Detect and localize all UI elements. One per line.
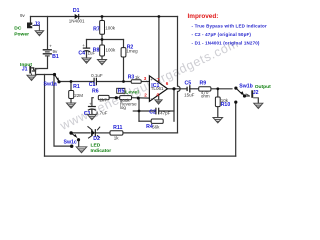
svg-text:15uF: 15uF (184, 93, 195, 98)
connector J3 DC power (27, 23, 39, 31)
resistor R1 (69, 91, 74, 99)
battery B1 (43, 50, 52, 56)
node Sw1b bypass throw (234, 101, 237, 104)
connector J2 output jack (246, 90, 259, 98)
wire feedback right vertical (173, 89, 175, 121)
svg-text:R3: R3 (128, 75, 135, 81)
node R2 junction (122, 80, 125, 83)
svg-text:B1: B1 (52, 54, 59, 60)
svg-text:7: 7 (157, 77, 160, 82)
wire R7 top stub (101, 17, 103, 21)
wire R10 top stub (217, 89, 219, 97)
node Sw1c common (69, 131, 72, 134)
svg-text:log: log (120, 105, 127, 110)
svg-text:1k: 1k (135, 75, 141, 80)
op-amp IC1 (149, 76, 167, 102)
svg-text:R11: R11 (113, 125, 122, 131)
wire Sw1a grounded throw vertical (54, 76, 71, 147)
ground under R10 (213, 118, 223, 123)
svg-text:+: + (150, 77, 153, 82)
node R7 top junction (101, 15, 104, 18)
svg-text:TL061: TL061 (151, 86, 164, 91)
svg-text:Improved:: Improved: (188, 13, 219, 20)
svg-text:1meg: 1meg (126, 49, 138, 54)
wire J1 tip to Sw1a common (33, 71, 55, 75)
wire R8 ground stub (101, 56, 103, 60)
wire LED to Sw1c (71, 132, 90, 134)
resistor R4 (151, 119, 163, 123)
wire R7 bottom stub (101, 34, 103, 39)
capacitor C4 (83, 48, 90, 52)
node pot left junction (115, 96, 118, 99)
wire bypass vertical right (235, 102, 237, 156)
resistor R8 (100, 45, 105, 56)
svg-text:9v: 9v (20, 13, 26, 18)
node Sw1a common (53, 73, 56, 76)
watermark (57, 36, 241, 133)
wire R1 bottom stub (70, 99, 72, 104)
switch Sw1b (236, 88, 244, 96)
node pin7 supply junction (158, 15, 161, 18)
switch Sw1a (55, 75, 60, 83)
svg-text:R6: R6 (92, 88, 99, 94)
capacitor C1 (94, 78, 96, 86)
node C2 row junction (138, 110, 141, 113)
svg-text:Sw1c: Sw1c (64, 139, 77, 145)
wire pot wiper stub (133, 110, 139, 112)
wire C2 row left (139, 110, 155, 112)
diode D1 (75, 14, 79, 19)
svg-text:3: 3 (144, 76, 147, 81)
wire R9 to Sw1b (211, 88, 232, 90)
node output junction (172, 87, 175, 90)
node R1 junction (70, 80, 73, 83)
node pin2 junction (137, 97, 140, 100)
svg-text:2: 2 (144, 92, 147, 97)
svg-text:- C2 - 47pF (original 50pF): - C2 - 47pF (original 50pF) (192, 32, 252, 37)
wire battery top drop (47, 17, 49, 50)
svg-text:DC: DC (14, 25, 22, 31)
svg-text:R8: R8 (93, 48, 100, 54)
wire C1 to R3 (97, 81, 132, 83)
svg-text:Sw1a: Sw1a (44, 82, 57, 88)
svg-text:R9: R9 (200, 81, 207, 87)
wire R8 top stub (101, 40, 103, 46)
svg-text:1k: 1k (114, 136, 120, 141)
svg-text:R10: R10 (221, 102, 231, 108)
wire C4 ground stub (86, 51, 88, 58)
wire output row (168, 88, 187, 90)
wire J2 ground stub (257, 98, 259, 103)
svg-text:Indicator: Indicator (91, 148, 112, 154)
resistor R10 (215, 97, 220, 107)
wire Sw1c throw ground stub (78, 140, 80, 146)
ground under J2 (254, 103, 263, 108)
potentiometer R5 (120, 96, 132, 100)
ground under C4 (82, 58, 91, 63)
connector J1 input jack (29, 66, 38, 74)
wire pot right to pin2 (132, 97, 150, 99)
capacitor C2 (156, 108, 159, 115)
node Sw1c grounded throw (77, 138, 80, 141)
capacitor C3 (88, 107, 96, 111)
wire battery bottom to input jack (36, 57, 48, 71)
svg-text:+: + (49, 44, 52, 49)
svg-text:D2: D2 (93, 136, 100, 142)
ground under R1 (67, 103, 76, 108)
ground under op-amp pin4 (155, 100, 162, 104)
resistor R2 (121, 48, 126, 57)
svg-text:6: 6 (166, 81, 169, 86)
ground under C3 (87, 115, 96, 120)
wire R3 to op-amp pin3 (141, 81, 149, 83)
svg-text:R7: R7 (93, 26, 100, 32)
wire R4 row (139, 120, 151, 122)
wire Sw1b throw to J2 (246, 95, 250, 97)
svg-text:- True Bypass with LED indicat: - True Bypass with LED indicator (192, 24, 267, 29)
svg-text:C1: C1 (89, 82, 96, 88)
resistor R9 (199, 87, 211, 91)
resistor R11 (110, 131, 123, 135)
wire C4 stub (86, 40, 88, 48)
node Vbias junction (101, 38, 104, 41)
wire R2 vertical (123, 40, 125, 48)
svg-text:Sw1b: Sw1b (239, 84, 253, 90)
node Sw1c open throw (70, 145, 73, 148)
wire R6 right to pot (109, 97, 120, 99)
wire feedback left vertical (138, 98, 140, 121)
svg-text:J1: J1 (22, 66, 28, 72)
ground under J1 (27, 74, 36, 81)
svg-text:LED: LED (91, 143, 101, 149)
svg-text:J2: J2 (253, 90, 259, 96)
svg-text:J3: J3 (34, 21, 40, 27)
svg-text:4: 4 (156, 92, 159, 97)
svg-text:1N4001: 1N4001 (69, 19, 85, 24)
svg-text:100k: 100k (106, 47, 117, 52)
svg-text:C2: C2 (149, 110, 156, 116)
node R10 junction (216, 87, 219, 90)
wire LED supply to R11 (123, 132, 178, 134)
node Sw1a throw (57, 80, 60, 83)
svg-text:C4: C4 (78, 50, 85, 56)
wire op-amp pin4 ground stub (158, 95, 160, 100)
svg-text:Level: Level (125, 89, 139, 95)
resistor R6 (98, 95, 109, 99)
wire C3 ground stub (91, 110, 93, 115)
wire op-amp pin7 (158, 17, 160, 83)
wire LED supply drop with hop (178, 17, 181, 133)
resistor R7 (100, 21, 105, 35)
svg-text:+: + (82, 43, 85, 48)
wire top +9V rail (31, 16, 178, 18)
wire R11 to LED (96, 132, 110, 134)
svg-text:22M: 22M (74, 93, 83, 98)
wire R1 top stub (70, 82, 72, 91)
wire C2 row right (159, 110, 174, 112)
ground under Sw1c (76, 147, 86, 153)
resistor R3 (131, 80, 141, 84)
LED D2 (88, 126, 101, 138)
wire R10 ground stub (217, 107, 219, 118)
svg-text:C5: C5 (185, 81, 192, 87)
wire R6 left to C3 (92, 98, 93, 106)
ground under J3 (35, 31, 43, 36)
wire bottom bypass rail (45, 155, 236, 157)
svg-text:100k: 100k (105, 25, 116, 30)
svg-text:ohm: ohm (201, 93, 210, 98)
svg-text:4.7uF: 4.7uF (96, 111, 108, 116)
wire R2 bottom (123, 57, 125, 82)
svg-text:- D1 - 1N4001 (original 1N270): - D1 - 1N4001 (original 1N270) (192, 40, 260, 45)
svg-text:0.1uF: 0.1uF (91, 73, 103, 78)
svg-text:2k7: 2k7 (100, 98, 108, 103)
switch Sw1c (71, 133, 77, 138)
svg-text:56k: 56k (152, 125, 160, 130)
svg-text:+: + (89, 102, 92, 107)
wire bias rail (87, 39, 124, 41)
capacitor C5 (187, 85, 190, 92)
node Sw1b common (234, 87, 237, 90)
svg-text:47pF: 47pF (160, 111, 171, 116)
wire C5 to R9 (190, 88, 199, 90)
svg-text:R1: R1 (73, 84, 80, 90)
wire signal row switch to C1 (59, 81, 94, 83)
node Sw1b output throw (243, 94, 246, 97)
wire J3 tip drop (30, 17, 32, 25)
svg-text:D1: D1 (73, 8, 80, 14)
wire bypass vertical left (44, 75, 46, 157)
svg-text:Power: Power (14, 31, 29, 37)
ground under R8 (98, 60, 107, 65)
svg-text:R5: R5 (118, 88, 125, 94)
